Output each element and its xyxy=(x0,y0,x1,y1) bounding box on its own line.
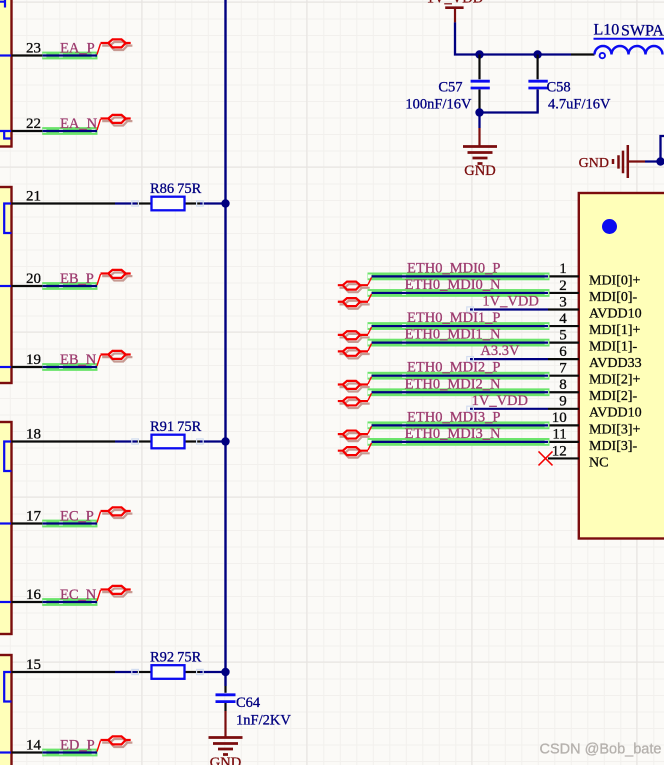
svg-text:GND: GND xyxy=(464,163,495,179)
ground GND (below C57) xyxy=(478,128,480,146)
wire net ED_P (pin 14) with selection highlight xyxy=(42,749,97,757)
svg-text:EB_P: EB_P xyxy=(60,271,94,287)
component internal graphic at pin 17 xyxy=(0,522,11,524)
svg-text:1V_VDD: 1V_VDD xyxy=(427,0,483,7)
svg-text:SWPA3012S: SWPA3012S xyxy=(621,23,664,40)
resistor R92 75R xyxy=(185,671,201,673)
junction at C57 bottom xyxy=(475,108,483,116)
pin 4 (MDI[1]+) xyxy=(548,325,579,327)
pin 20 (left connector) xyxy=(12,285,44,287)
wire 1V_VDD to decoupling caps and L10 xyxy=(455,22,571,54)
svg-text:MDI[2]-: MDI[2]- xyxy=(589,389,638,404)
wire net ETH0_MDI3_P (pin 10) with selection highlight xyxy=(368,421,550,429)
svg-text:4.7uF/16V: 4.7uF/16V xyxy=(548,97,611,113)
svg-text:3: 3 xyxy=(559,294,567,310)
wire right GND to off-sheet xyxy=(645,136,664,162)
svg-text:ETH0_MDI3_N: ETH0_MDI3_N xyxy=(405,426,501,442)
no-ERC marker at pin 12 xyxy=(539,451,553,465)
svg-text:ED_P: ED_P xyxy=(60,738,95,754)
differential pair directive at EB_N xyxy=(97,351,132,366)
svg-text:11: 11 xyxy=(552,427,566,443)
wire net EC_N (pin 16) with selection highlight xyxy=(42,598,97,606)
differential pair directive at ETH0_MDI1_P xyxy=(338,327,372,342)
wire R91 to bus xyxy=(200,440,226,442)
pin 19 (left connector) xyxy=(12,366,44,368)
junction at bus / R92 xyxy=(221,668,229,676)
svg-text:EC_N: EC_N xyxy=(60,587,97,603)
wire from pin 15 to R92 xyxy=(115,671,137,673)
component internal graphic at pin 15 xyxy=(4,672,11,702)
differential pair directive at EC_P xyxy=(97,507,132,522)
pin 7 (MDI[2]+) xyxy=(548,375,579,377)
wire net EA_N (pin 22) with selection highlight xyxy=(42,127,97,135)
component internal graphic at pin 22 xyxy=(0,131,11,139)
svg-text:EB_N: EB_N xyxy=(60,352,97,368)
svg-text:1V_VDD: 1V_VDD xyxy=(482,294,538,310)
svg-text:1: 1 xyxy=(559,261,567,277)
svg-text:15: 15 xyxy=(26,657,41,673)
svg-text:23: 23 xyxy=(26,41,41,57)
pin-1 indicator dot xyxy=(602,219,617,234)
svg-text:ETH0_MDI2_N: ETH0_MDI2_N xyxy=(405,376,501,392)
pin 17 (left connector) xyxy=(12,522,44,524)
svg-text:22: 22 xyxy=(26,116,41,132)
svg-text:R86 75R: R86 75R xyxy=(150,181,202,197)
wire net ETH0_MDI3_N (pin 11) with selection highlight xyxy=(368,438,550,446)
junction at C58 top xyxy=(533,50,541,58)
pin 21 (left connector) xyxy=(12,202,116,204)
svg-text:20: 20 xyxy=(26,271,41,287)
svg-text:MDI[0]-: MDI[0]- xyxy=(589,290,638,305)
svg-text:AVDD10: AVDD10 xyxy=(589,306,642,321)
svg-text:C57: C57 xyxy=(438,80,462,96)
resistor R86 75R xyxy=(185,202,201,204)
pin 10 (MDI[3]+) xyxy=(548,424,579,426)
svg-text:R92 75R: R92 75R xyxy=(150,650,202,666)
junction at C57 top xyxy=(475,50,483,58)
component internal graphic at pin 18 xyxy=(4,442,11,472)
wire C57 bottom to C58 bottom xyxy=(480,90,538,113)
pin 16 (left connector) xyxy=(12,601,44,603)
differential pair directive at ETH0_MDI2_P xyxy=(338,377,372,392)
svg-text:MDI[0]+: MDI[0]+ xyxy=(589,273,641,288)
differential pair directive at EC_N xyxy=(97,586,132,601)
svg-text:10: 10 xyxy=(552,410,567,426)
differential pair directive at ED_P xyxy=(97,736,132,751)
svg-text:9: 9 xyxy=(559,394,567,410)
wire power stub (pin 3) xyxy=(470,308,548,310)
differential pair directive at EA_N xyxy=(97,115,132,130)
svg-text:19: 19 xyxy=(26,352,41,368)
svg-text:EA_N: EA_N xyxy=(60,116,98,132)
svg-text:100nF/16V: 100nF/16V xyxy=(405,97,472,113)
svg-text:NC: NC xyxy=(589,455,608,470)
wire power stub (pin 6) xyxy=(470,358,548,360)
svg-text:ETH0_MDI1_P: ETH0_MDI1_P xyxy=(407,310,500,326)
magnetics connector body section A (pins 23,22) xyxy=(0,0,12,147)
differential pair directive at ETH0_MDI3_N xyxy=(338,443,372,458)
capacitor C58 4.7uF/16V xyxy=(536,55,538,80)
component internal graphic at pin 23 xyxy=(0,54,11,56)
magnetics connector body section C (pins 18,17,16) xyxy=(0,422,12,634)
pin 9 (AVDD10) xyxy=(548,408,579,410)
svg-text:7: 7 xyxy=(559,361,567,377)
differential pair directive at ETH0_MDI3_P xyxy=(338,426,372,441)
component internal graphic at pin 20 xyxy=(0,285,11,287)
wire power stub (pin 9) xyxy=(470,408,548,410)
pin 12 (NC) xyxy=(548,457,579,459)
svg-text:4: 4 xyxy=(559,311,567,327)
pin 11 (MDI[3]-) xyxy=(548,441,579,443)
svg-text:ETH0_MDI0_N: ETH0_MDI0_N xyxy=(405,277,501,293)
junction at bus / R91 xyxy=(221,437,229,445)
wire net ETH0_MDI0_N (pin 2) with selection highlight xyxy=(368,289,550,297)
junction near right GND xyxy=(656,157,664,165)
wire net ETH0_MDI2_N (pin 8) with selection highlight xyxy=(368,388,550,396)
svg-text:ETH0_MDI0_P: ETH0_MDI0_P xyxy=(407,260,500,276)
svg-text:C58: C58 xyxy=(547,80,571,96)
svg-text:AVDD10: AVDD10 xyxy=(589,406,642,421)
svg-text:1V_VDD: 1V_VDD xyxy=(472,393,528,409)
svg-text:14: 14 xyxy=(26,738,42,754)
svg-text:C64: C64 xyxy=(236,695,261,711)
svg-text:EC_P: EC_P xyxy=(60,509,94,525)
svg-text:16: 16 xyxy=(26,587,42,603)
wire from pin 21 to R86 xyxy=(115,202,137,204)
svg-text:21: 21 xyxy=(26,189,41,205)
wire to ground xyxy=(478,113,480,129)
differential pair directive at EA_P xyxy=(97,39,132,54)
inductor L10 SWPA3 xyxy=(571,53,595,55)
svg-text:2: 2 xyxy=(559,278,567,294)
svg-text:8: 8 xyxy=(559,377,567,393)
capacitor C64 xyxy=(224,686,226,693)
wire net ETH0_MDI2_P (pin 7) with selection highlight xyxy=(368,372,550,380)
differential pair directive at EB_P xyxy=(97,270,132,285)
ground GND (bottom, at C64) xyxy=(224,711,226,737)
resistor R91 75R xyxy=(185,440,201,442)
differential pair directive at ETH0_MDI0_N xyxy=(338,294,372,309)
pin 2 (MDI[0]-) xyxy=(548,292,579,294)
wire R86 to bus xyxy=(200,202,226,204)
pin 1 (MDI[0]+) xyxy=(548,275,579,277)
pin 3 (AVDD10) xyxy=(548,308,579,310)
svg-text:5: 5 xyxy=(559,327,567,343)
svg-text:CSDN @Bob_bate: CSDN @Bob_bate xyxy=(540,742,662,758)
wire from pin 18 to R91 xyxy=(115,440,137,442)
wire net EC_P (pin 17) with selection highlight xyxy=(42,520,97,528)
svg-text:12: 12 xyxy=(552,443,567,459)
svg-text:6: 6 xyxy=(559,344,567,360)
magnetics connector body section B (pins 21,20,19) xyxy=(0,187,12,383)
pin 15 (left connector) xyxy=(12,671,116,673)
differential pair directive at ETH0_MDI0_P xyxy=(338,277,372,292)
pin 14 (left connector) xyxy=(12,751,44,753)
vertical bus wire (center termination rail) xyxy=(224,0,226,686)
svg-text:ETH0_MDI3_P: ETH0_MDI3_P xyxy=(407,409,500,425)
junction at bus / R86 xyxy=(221,199,229,207)
svg-text:A3.3V: A3.3V xyxy=(480,343,520,359)
wire net EA_P (pin 23) with selection highlight xyxy=(42,52,97,60)
svg-text:EA_P: EA_P xyxy=(60,41,95,57)
svg-text:GND: GND xyxy=(579,156,609,171)
svg-text:AVDD33: AVDD33 xyxy=(589,356,642,371)
svg-text:MDI[2]+: MDI[2]+ xyxy=(589,373,641,388)
svg-text:1nF/2KV: 1nF/2KV xyxy=(236,713,291,729)
svg-text:ETH0_MDI2_P: ETH0_MDI2_P xyxy=(407,360,500,376)
svg-text:GND: GND xyxy=(210,755,241,765)
svg-text:MDI[3]-: MDI[3]- xyxy=(589,439,638,454)
svg-text:L10: L10 xyxy=(594,22,620,39)
pin 8 (MDI[2]-) xyxy=(548,391,579,393)
wire net ETH0_MDI1_P (pin 4) with selection highlight xyxy=(368,322,550,330)
wire net ETH0_MDI1_N (pin 5) with selection highlight xyxy=(368,339,550,347)
differential pair directive at ETH0_MDI2_N xyxy=(338,393,372,408)
capacitor C57 100nF/16V xyxy=(478,55,480,80)
svg-text:MDI[3]+: MDI[3]+ xyxy=(589,422,641,437)
svg-text:ETH0_MDI1_N: ETH0_MDI1_N xyxy=(405,327,501,343)
pin 18 (left connector) xyxy=(12,440,116,442)
differential pair directive at ETH0_MDI1_N xyxy=(338,344,372,359)
wire net EB_P (pin 20) with selection highlight xyxy=(42,282,97,290)
component internal graphic at pin 19 xyxy=(0,366,11,368)
pin 22 (left connector) xyxy=(12,130,44,132)
pin 6 (AVDD33) xyxy=(548,358,579,360)
wire net ETH0_MDI0_P (pin 1) with selection highlight xyxy=(368,273,550,281)
svg-text:MDI[1]-: MDI[1]- xyxy=(589,340,638,355)
svg-text:R91 75R: R91 75R xyxy=(150,419,202,435)
magnetics connector body section D (pins 15,14) xyxy=(0,655,12,765)
svg-text:18: 18 xyxy=(26,427,41,443)
component internal graphic at pin 21 xyxy=(4,204,11,234)
component internal graphic at pin 16 xyxy=(0,601,11,603)
svg-text:17: 17 xyxy=(26,509,42,525)
svg-text:MDI[1]+: MDI[1]+ xyxy=(589,323,641,338)
component internal graphic at pin 14 xyxy=(0,751,11,753)
wire net EB_N (pin 19) with selection highlight xyxy=(42,363,97,371)
component internal graphic (top fragment) xyxy=(0,0,5,8)
pin 23 (left connector) xyxy=(12,54,44,56)
PHY component body (right, pins 1-12) xyxy=(579,193,664,539)
wire R92 to bus xyxy=(200,671,226,673)
pin 5 (MDI[1]-) xyxy=(548,342,579,344)
